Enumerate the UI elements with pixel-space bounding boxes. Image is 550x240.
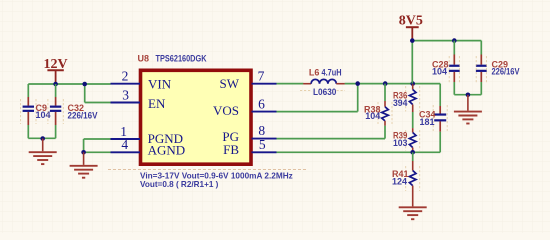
svg-text:VIN: VIN <box>148 76 172 91</box>
svg-text:181: 181 <box>420 117 435 127</box>
junction VOS/SW <box>355 81 360 86</box>
svg-text:EN: EN <box>148 96 166 111</box>
wire AGND pin4 <box>84 151 111 153</box>
capacitor C34 <box>419 84 447 153</box>
capacitor C29 <box>476 41 520 95</box>
junction 8V5/rail <box>410 81 415 86</box>
wire FB line <box>277 151 441 153</box>
capacitor C32 <box>48 84 98 138</box>
wire PG line <box>277 126 386 139</box>
svg-text:226/16V: 226/16V <box>492 66 520 76</box>
pin 1 PGND <box>111 124 184 146</box>
ground G2 <box>70 152 98 177</box>
wire VOS sense <box>277 84 358 112</box>
svg-text:VOS: VOS <box>213 103 239 118</box>
svg-text:L6: L6 <box>309 68 320 78</box>
note dashed rule <box>108 169 306 171</box>
junction ground <box>40 136 45 141</box>
wire cap ground link right <box>454 94 481 96</box>
pin 8 PG <box>222 123 276 144</box>
svg-text:AGND: AGND <box>148 142 186 157</box>
junction C28 <box>452 38 457 43</box>
wire PGND pin1 <box>84 139 111 152</box>
ground G1 <box>29 139 57 165</box>
ground G4 <box>399 194 427 219</box>
svg-text:8: 8 <box>258 123 265 138</box>
junction PGND/AGND <box>81 150 86 155</box>
pin 2 VIN <box>111 69 172 92</box>
svg-text:2: 2 <box>122 69 129 84</box>
svg-text:5: 5 <box>259 137 266 152</box>
wire EN branch <box>85 84 111 103</box>
svg-text:Vout=0.8 ( R2/R1+1 ): Vout=0.8 ( R2/R1+1 ) <box>140 179 219 189</box>
ground G3 <box>454 95 482 124</box>
svg-text:4.7uH: 4.7uH <box>322 68 342 78</box>
inductor L6 <box>300 68 345 98</box>
pin 6 VOS <box>213 96 277 117</box>
capacitor C9 <box>21 84 51 138</box>
svg-text:TPS62160DGK: TPS62160DGK <box>156 54 207 64</box>
power net 8V5 <box>399 14 423 41</box>
wire cap ground link <box>28 137 55 139</box>
svg-text:3: 3 <box>122 87 129 102</box>
wire 8V5 rail <box>412 41 481 84</box>
svg-text:L0630: L0630 <box>313 87 336 97</box>
svg-text:104: 104 <box>432 66 447 76</box>
wire R36-R39 <box>412 112 414 128</box>
svg-text:7: 7 <box>258 69 265 84</box>
junction FB node <box>410 150 415 155</box>
resistor R38 <box>364 84 392 126</box>
svg-text:394: 394 <box>393 98 407 108</box>
svg-text:226/16V: 226/16V <box>68 111 98 121</box>
svg-text:124: 124 <box>392 177 407 187</box>
pin 7 SW <box>220 69 277 91</box>
wire SW to L6 <box>277 83 304 85</box>
note text parameters <box>140 171 293 189</box>
wire 12V rail <box>28 83 110 85</box>
junction 8V5 <box>410 38 415 43</box>
svg-text:6: 6 <box>258 96 265 111</box>
pin 5 FB <box>223 137 276 157</box>
resistor R36 <box>393 84 420 112</box>
svg-text:U8: U8 <box>138 54 150 64</box>
svg-text:104: 104 <box>365 111 380 121</box>
junction 12V/C32 <box>53 82 58 87</box>
pin 4 AGND <box>111 137 186 157</box>
svg-text:FB: FB <box>223 142 239 157</box>
wire SW rail <box>345 83 441 85</box>
junction ground right <box>466 93 471 98</box>
junction R38/rail <box>383 81 388 86</box>
svg-text:4: 4 <box>121 137 128 152</box>
resistor R41 <box>392 152 420 194</box>
resistor R39 <box>393 128 420 152</box>
svg-text:103: 103 <box>393 138 407 148</box>
IC U8 TPS62160DGK <box>138 54 252 165</box>
svg-text:SW: SW <box>220 76 240 91</box>
capacitor C28 <box>432 41 460 95</box>
power net 12V <box>43 57 67 84</box>
junction rail/EN <box>82 82 87 87</box>
pin 3 EN <box>111 87 166 111</box>
